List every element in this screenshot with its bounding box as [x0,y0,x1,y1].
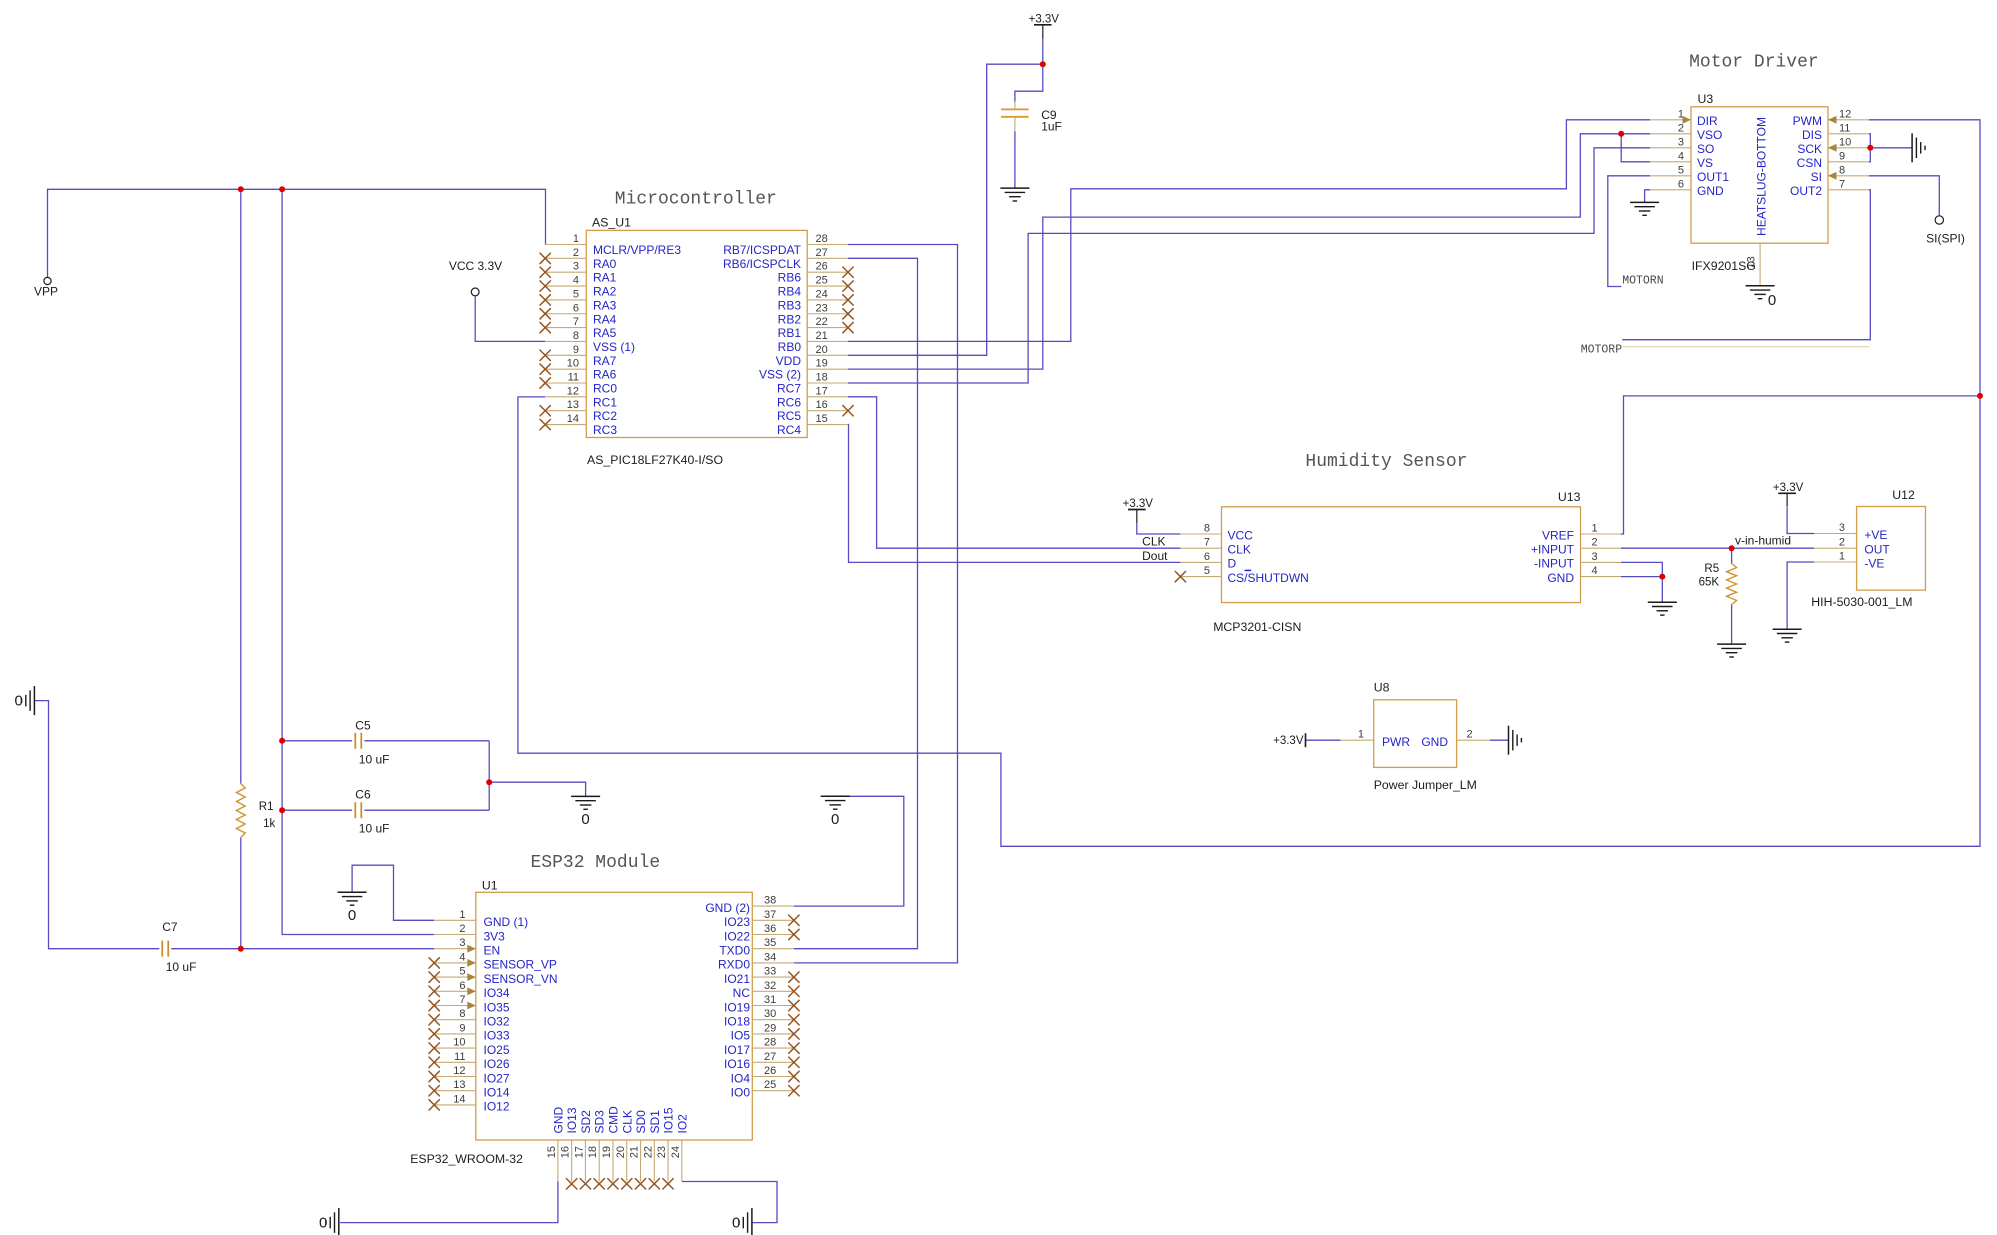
svg-text:VREF: VREF [1542,528,1574,542]
svg-text:RB7/ICSPDAT: RB7/ICSPDAT [723,243,801,257]
svg-text:GND: GND [1547,571,1574,585]
svg-text:23: 23 [816,302,828,314]
svg-text:15: 15 [546,1146,558,1158]
svg-text:IO34: IO34 [484,986,510,1000]
svg-text:22: 22 [642,1146,654,1158]
svg-text:RC7: RC7 [777,382,801,396]
svg-text:SCK: SCK [1797,142,1822,156]
svg-text:VCC: VCC [1228,528,1254,542]
svg-text:SI(SPI): SI(SPI) [1926,232,1965,246]
svg-text:PWM: PWM [1793,114,1822,128]
svg-text:VSS (2): VSS (2) [759,368,801,382]
svg-text:IO35: IO35 [484,1000,510,1014]
svg-text:27: 27 [764,1051,776,1063]
svg-text:20: 20 [816,344,828,356]
svg-text:14: 14 [567,413,579,425]
svg-text:37: 37 [764,909,776,921]
svg-text:RC1: RC1 [593,395,617,409]
svg-text:1uF: 1uF [1041,120,1062,134]
svg-text:U8: U8 [1374,681,1390,695]
svg-text:7: 7 [573,316,579,328]
svg-text:4: 4 [1678,150,1684,162]
svg-text:CLK: CLK [620,1110,634,1133]
svg-text:5: 5 [1678,164,1684,176]
svg-text:SD1: SD1 [648,1110,662,1134]
svg-text:SD2: SD2 [579,1110,593,1134]
svg-text:15: 15 [816,413,828,425]
svg-text:26: 26 [816,261,828,273]
svg-text:GND: GND [551,1107,565,1134]
svg-text:RC5: RC5 [777,409,801,423]
svg-text:RB1: RB1 [778,326,802,340]
svg-text:25: 25 [764,1079,776,1091]
svg-text:RC2: RC2 [593,409,617,423]
svg-text:EN: EN [484,944,501,958]
svg-text:3: 3 [1592,551,1598,563]
svg-text:TXD0: TXD0 [719,944,750,958]
svg-text:65K: 65K [1699,577,1720,589]
svg-text:RC0: RC0 [593,382,617,396]
svg-text:1: 1 [1592,523,1598,535]
svg-text:+INPUT: +INPUT [1531,543,1575,557]
svg-text:8: 8 [573,330,579,342]
svg-text:21: 21 [816,330,828,342]
svg-text:CS/SHUTDWN: CS/SHUTDWN [1228,571,1309,585]
svg-text:VPP: VPP [34,285,58,299]
svg-text:R1: R1 [259,801,274,813]
svg-text:10: 10 [567,358,579,370]
svg-text:IO33: IO33 [484,1029,510,1043]
svg-text:CLK: CLK [1228,543,1251,557]
svg-text:10 uF: 10 uF [166,960,197,974]
svg-text:U12: U12 [1892,488,1915,502]
svg-text:3: 3 [573,261,579,273]
svg-text:0: 0 [1768,292,1776,309]
svg-text:CSN: CSN [1797,156,1822,170]
svg-text:8: 8 [1204,523,1210,535]
svg-text:24: 24 [670,1146,682,1158]
svg-text:12: 12 [453,1065,465,1077]
svg-text:IO25: IO25 [484,1043,510,1057]
svg-text:VSO: VSO [1697,128,1722,142]
svg-text:5: 5 [1204,565,1210,577]
svg-text:VCC 3.3V: VCC 3.3V [449,259,502,273]
svg-text:VDD: VDD [776,354,802,368]
svg-text:SD0: SD0 [634,1110,648,1134]
svg-text:+3.3V: +3.3V [1773,482,1804,494]
svg-text:HIH-5030-001_LM: HIH-5030-001_LM [1811,595,1912,609]
svg-text:Humidity Sensor: Humidity Sensor [1305,452,1467,472]
svg-text:38: 38 [764,895,776,907]
svg-text:SI: SI [1811,170,1822,184]
svg-text:IO32: IO32 [484,1015,510,1029]
svg-text:27: 27 [816,247,828,259]
svg-text:Motor Driver: Motor Driver [1689,53,1819,73]
svg-text:12: 12 [567,385,579,397]
svg-text:23: 23 [656,1146,668,1158]
svg-text:SD3: SD3 [593,1110,607,1134]
svg-text:6: 6 [573,302,579,314]
svg-text:4: 4 [1592,565,1598,577]
svg-text:+3.3V: +3.3V [1029,13,1060,25]
svg-text:ESP32 Module: ESP32 Module [531,853,661,873]
svg-text:7: 7 [1204,537,1210,549]
svg-text:IO21: IO21 [724,972,750,986]
svg-text:Dout: Dout [1142,549,1168,563]
svg-text:PWR: PWR [1382,735,1410,749]
svg-text:19: 19 [601,1146,613,1158]
svg-text:29: 29 [764,1022,776,1034]
svg-text:2: 2 [1839,537,1845,549]
svg-text:9: 9 [459,1022,465,1034]
svg-text:OUT1: OUT1 [1697,170,1729,184]
svg-text:RB6/ICSPCLK: RB6/ICSPCLK [723,257,801,271]
svg-text:-INPUT: -INPUT [1534,557,1575,571]
svg-text:25: 25 [816,275,828,287]
svg-text:U3: U3 [1698,92,1714,106]
svg-text:3: 3 [1678,136,1684,148]
svg-text:22: 22 [816,316,828,328]
svg-text:13: 13 [453,1079,465,1091]
svg-text:IO4: IO4 [731,1071,751,1085]
svg-text:RXD0: RXD0 [718,958,750,972]
svg-text:RA1: RA1 [593,271,617,285]
svg-text:RA2: RA2 [593,285,617,299]
svg-text:31: 31 [764,994,776,1006]
svg-text:0: 0 [831,811,839,828]
svg-text:2: 2 [1467,729,1473,741]
svg-text:RB2: RB2 [778,312,802,326]
svg-text:4: 4 [459,951,465,963]
svg-text:13: 13 [567,399,579,411]
svg-text:CMD: CMD [606,1106,620,1134]
svg-text:IO2: IO2 [675,1114,689,1134]
svg-text:IO0: IO0 [731,1086,751,1100]
svg-text:U13: U13 [1558,490,1581,504]
svg-text:MCLR/VPP/RE3: MCLR/VPP/RE3 [593,243,681,257]
svg-text:IO27: IO27 [484,1071,510,1085]
svg-text:10 uF: 10 uF [359,822,390,836]
svg-text:0: 0 [319,1215,327,1232]
svg-text:U1: U1 [482,879,498,893]
svg-text:35: 35 [764,937,776,949]
svg-text:7: 7 [1839,178,1845,190]
svg-text:18: 18 [816,372,828,384]
svg-text:RA5: RA5 [593,326,617,340]
svg-text:C6: C6 [355,788,371,802]
svg-text:IFX9201SG: IFX9201SG [1692,259,1756,273]
svg-text:RC6: RC6 [777,395,801,409]
svg-text:+3.3V: +3.3V [1273,735,1304,747]
svg-text:9: 9 [1839,150,1845,162]
svg-text:SENSOR_VN: SENSOR_VN [484,972,558,986]
svg-text:3V3: 3V3 [484,929,506,943]
svg-text:2: 2 [459,923,465,935]
svg-text:10: 10 [1839,136,1851,148]
svg-text:3: 3 [1839,522,1845,534]
svg-text:7: 7 [459,994,465,1006]
svg-text:8: 8 [1839,164,1845,176]
svg-text:DIR: DIR [1697,114,1718,128]
svg-text:6: 6 [1204,551,1210,563]
svg-text:6: 6 [459,980,465,992]
svg-text:IO22: IO22 [724,929,750,943]
svg-text:1k: 1k [263,818,275,830]
svg-text:IO16: IO16 [724,1057,750,1071]
svg-text:RA0: RA0 [593,257,617,271]
svg-text:RC4: RC4 [777,423,801,437]
svg-text:RB3: RB3 [778,298,802,312]
svg-text:RA6: RA6 [593,368,617,382]
svg-text:RC3: RC3 [593,423,617,437]
svg-text:11: 11 [454,1051,465,1063]
svg-text:10: 10 [453,1037,465,1049]
svg-text:RA7: RA7 [593,354,617,368]
svg-text:10 uF: 10 uF [359,752,390,766]
svg-text:1: 1 [1839,551,1845,563]
svg-text:-VE: -VE [1864,556,1884,570]
svg-text:IO18: IO18 [724,1015,750,1029]
svg-text:0: 0 [348,907,356,924]
svg-text:GND: GND [1697,184,1724,198]
svg-text:SO: SO [1697,142,1714,156]
svg-text:1: 1 [1358,729,1364,741]
svg-text:AS_U1: AS_U1 [592,216,631,230]
svg-text:MOTORP: MOTORP [1581,344,1623,357]
svg-text:RB4: RB4 [778,285,802,299]
svg-text:Power Jumper_LM: Power Jumper_LM [1374,778,1477,792]
svg-text:VSS (1): VSS (1) [593,340,635,354]
svg-text:1: 1 [573,233,579,245]
svg-text:2: 2 [1678,122,1684,134]
svg-text:RB6: RB6 [778,271,802,285]
svg-text:RA4: RA4 [593,312,617,326]
svg-text:17: 17 [816,385,828,397]
svg-text:v-in-humid: v-in-humid [1735,534,1791,548]
svg-text:GND: GND [1421,735,1448,749]
svg-text:MOTORN: MOTORN [1622,275,1663,288]
svg-text:0: 0 [581,811,589,828]
svg-text:C7: C7 [162,920,178,934]
svg-text:18: 18 [587,1146,599,1158]
svg-text:+VE: +VE [1864,528,1887,542]
svg-text:2: 2 [573,247,579,259]
svg-text:3: 3 [459,937,465,949]
svg-text:11: 11 [1839,122,1850,134]
svg-text:GND (2): GND (2) [705,901,750,915]
svg-text:0: 0 [732,1215,740,1232]
svg-text:14: 14 [453,1093,465,1105]
svg-text:19: 19 [816,358,828,370]
svg-text:OUT: OUT [1864,543,1890,557]
svg-text:30: 30 [764,1008,776,1020]
svg-text:Microcontroller: Microcontroller [615,190,777,210]
svg-text:CLK: CLK [1142,535,1165,549]
svg-text:DIS: DIS [1802,128,1822,142]
svg-text:ESP32_WROOM-32: ESP32_WROOM-32 [410,1152,523,1166]
svg-text:21: 21 [629,1146,641,1158]
svg-text:+3.3V: +3.3V [1123,498,1154,510]
svg-text:34: 34 [764,951,776,963]
svg-text:0: 0 [15,693,23,710]
svg-text:IO14: IO14 [484,1086,510,1100]
svg-text:33: 33 [764,966,776,978]
svg-text:C5: C5 [355,718,371,732]
svg-text:24: 24 [816,288,828,300]
svg-text:16: 16 [816,399,828,411]
svg-text:28: 28 [816,233,828,245]
svg-text:SENSOR_VP: SENSOR_VP [484,958,557,972]
svg-text:OUT2: OUT2 [1790,184,1822,198]
svg-text:NC: NC [733,986,751,1000]
svg-text:IO12: IO12 [484,1100,510,1114]
svg-text:IO26: IO26 [484,1057,510,1071]
svg-text:IO19: IO19 [724,1000,750,1014]
svg-text:16: 16 [560,1146,572,1158]
svg-text:1: 1 [459,909,465,921]
svg-text:20: 20 [615,1146,627,1158]
svg-text:17: 17 [573,1146,585,1158]
svg-text:6: 6 [1678,178,1684,190]
svg-text:AS_PIC18LF27K40-I/SO: AS_PIC18LF27K40-I/SO [587,453,723,467]
svg-text:32: 32 [764,980,776,992]
svg-text:12: 12 [1839,108,1851,120]
svg-text:D: D [1228,557,1237,571]
svg-text:11: 11 [568,372,579,384]
svg-text:2: 2 [1592,537,1598,549]
svg-text:8: 8 [459,1008,465,1020]
svg-text:GND (1): GND (1) [484,915,529,929]
svg-text:VS: VS [1697,156,1713,170]
svg-text:5: 5 [573,288,579,300]
svg-text:MCP3201-CISN: MCP3201-CISN [1213,620,1301,634]
svg-text:RB0: RB0 [778,340,802,354]
svg-text:HEATSLUG-BOTTOM: HEATSLUG-BOTTOM [1754,117,1768,236]
svg-text:IO17: IO17 [724,1043,750,1057]
svg-text:IO13: IO13 [565,1107,579,1133]
svg-text:26: 26 [764,1065,776,1077]
svg-text:IO23: IO23 [724,915,750,929]
svg-text:28: 28 [764,1037,776,1049]
svg-text:36: 36 [764,923,776,935]
svg-text:9: 9 [573,344,579,356]
svg-text:5: 5 [459,966,465,978]
svg-text:RA3: RA3 [593,298,617,312]
svg-text:IO5: IO5 [731,1029,751,1043]
svg-text:R5: R5 [1704,563,1719,575]
svg-text:IO15: IO15 [662,1107,676,1133]
svg-text:4: 4 [573,275,579,287]
